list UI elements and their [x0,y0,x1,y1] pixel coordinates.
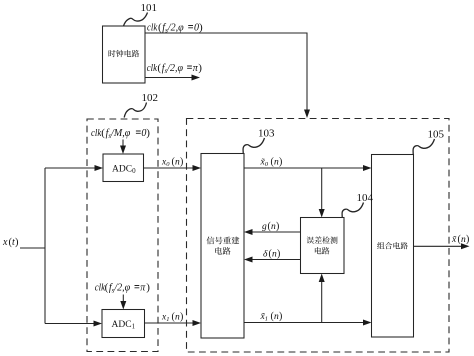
leader squiggle for 103 [243,138,264,153]
svg-text:): ) [146,127,150,139]
svg-text:g: g [262,222,267,232]
wire xt1(n) reconstruction to combination [244,320,372,326]
tap wire up into error detector [319,274,325,323]
svg-text:fs/2,φ: fs/2,φ [109,283,131,295]
svg-text:104: 104 [357,192,374,204]
svg-text:x: x [2,237,8,248]
leader squiggle for 102 [124,103,146,118]
wire clk(fs/2,phi=pi) stub with arrow [145,75,200,81]
svg-text:): ) [466,234,469,245]
dashed box 102 (ADC group) [87,119,158,352]
svg-text:): ) [279,311,282,322]
svg-text:x0: x0 [161,158,170,169]
combination block 组合电路 (105) [372,155,414,338]
tap wire down into error detector [319,168,325,218]
svg-text:): ) [198,62,202,74]
wire into ADC0 [45,165,103,171]
svg-text:): ) [276,221,279,232]
svg-text:): ) [199,22,203,34]
error detection block 误差检测电路 (104) [301,218,345,274]
clock wire into ADC0 top [120,140,126,155]
svg-text:): ) [146,282,150,294]
wire into ADC1 [45,321,102,327]
leader squiggle for 105 [413,139,434,154]
svg-text:x̃0: x̃0 [260,157,269,168]
svg-text:): ) [277,249,280,260]
ADC0 block [103,154,144,182]
branch vertical wire [44,168,46,324]
clock circuit block 时钟电路 (101) [103,26,146,83]
leader squiggle for 104 [342,203,363,218]
svg-text:δ: δ [263,250,268,260]
svg-text:101: 101 [141,2,158,14]
svg-text:x1: x1 [161,313,169,324]
svg-text:103: 103 [258,128,275,140]
svg-text:102: 102 [142,92,159,104]
svg-text:x̃: x̃ [451,234,457,245]
svg-text:): ) [180,157,183,168]
svg-text:): ) [279,157,282,168]
output wire xt(n) [414,243,470,249]
signal reconstruction block 信号重建电路 (103) [201,154,244,339]
big dashed box (reconstruction group) [187,119,450,353]
svg-text:105: 105 [428,129,445,141]
svg-text:clk: clk [91,128,102,139]
input wire x(t) [20,247,45,249]
wire xt0(n) reconstruction to combination [244,165,372,171]
wire g(n) error detector to reconstruction [244,229,301,235]
wire delta(n) error detector to reconstruction [244,257,301,263]
svg-text:fs/2,φ: fs/2,φ [162,23,184,35]
ADC1 block [102,310,145,338]
svg-text:ADC0: ADC0 [112,165,136,176]
svg-text:x̃1: x̃1 [260,311,268,322]
svg-text:fs/M,φ: fs/M,φ [106,128,131,140]
svg-text:fs/2,φ: fs/2,φ [162,63,184,75]
wire x1(n) from ADC1 to reconstruction [145,320,202,326]
svg-text:clk: clk [147,23,158,34]
svg-text:(: ( [101,127,105,139]
wire clk(fs/2,phi=0) from clock to big dashed box [145,33,310,118]
clock wire into ADC1 top [120,295,126,310]
leader squiggle for 101 [124,13,148,27]
wire x0(n) from ADC0 to reconstruction [144,165,202,171]
svg-text:): ) [15,237,19,248]
svg-text:): ) [180,312,183,323]
svg-text:clk: clk [147,63,158,74]
svg-text:ADC1: ADC1 [112,320,136,331]
